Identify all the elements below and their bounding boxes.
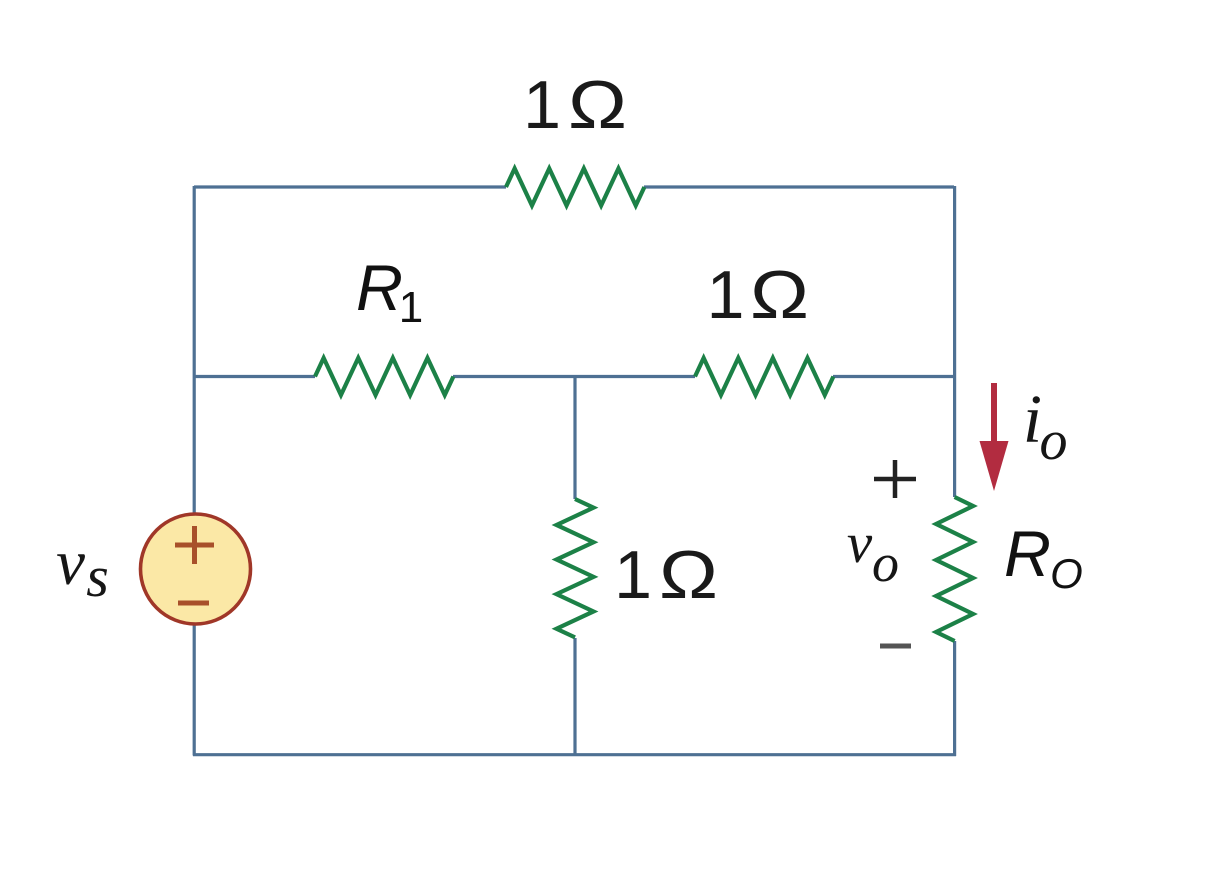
- plus sign in source: [175, 526, 214, 564]
- svg-text:1: 1: [614, 537, 652, 613]
- svg-text:1: 1: [707, 257, 745, 333]
- wire top-left segment: [194, 185, 506, 188]
- svg-text:1: 1: [399, 283, 423, 332]
- plus sign vo: [874, 460, 916, 498]
- svg-text:Ω: Ω: [750, 257, 809, 333]
- resistor R1 zigzag: [315, 358, 453, 395]
- svg-text:s: s: [86, 544, 109, 609]
- wire left vertical: [193, 186, 196, 756]
- minus sign vo: [880, 644, 911, 649]
- svg-text:v: v: [847, 512, 873, 575]
- resistor RO vertical zigzag: [936, 497, 973, 641]
- minus sign in source: [178, 601, 209, 606]
- svg-text:o: o: [1040, 410, 1068, 472]
- svg-text:o: o: [872, 533, 899, 593]
- svg-text:Ω: Ω: [659, 537, 718, 613]
- wire top-right segment: [644, 185, 954, 188]
- wire bottom: [193, 753, 956, 756]
- voltage source vs circle: [141, 514, 251, 624]
- svg-text:v: v: [56, 527, 85, 599]
- svg-text:Ω: Ω: [568, 67, 627, 143]
- wire middle vertical: [573, 377, 576, 756]
- current arrow io: [991, 383, 997, 445]
- wire right vertical: [953, 186, 956, 756]
- svg-text:O: O: [1050, 550, 1083, 597]
- svg-text:R: R: [1004, 517, 1051, 590]
- resistor 1ohm center vertical zigzag: [557, 499, 594, 637]
- svg-text:R: R: [356, 251, 403, 324]
- svg-text:1: 1: [523, 67, 561, 143]
- wire middle horizontal: [194, 375, 955, 378]
- resistor 1ohm middle-right zigzag: [695, 358, 833, 395]
- resistor 1ohm top zigzag: [506, 169, 644, 206]
